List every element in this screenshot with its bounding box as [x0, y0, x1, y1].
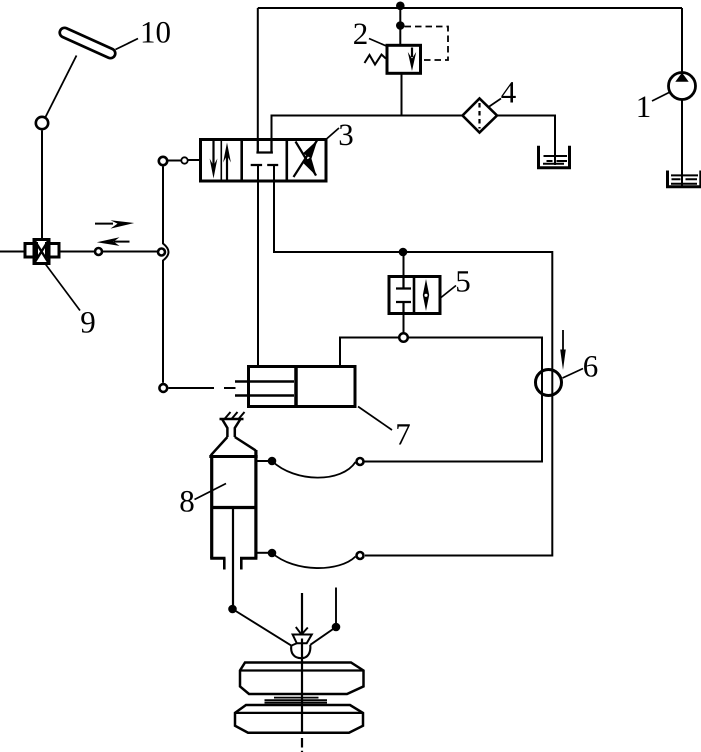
filter 4 diamond: [463, 99, 498, 133]
wire to junction: [103, 251, 157, 253]
wheel upper: [240, 663, 364, 695]
cylinder 8 rod: [232, 509, 234, 605]
label 9: [81, 312, 94, 333]
node follower pin circle: [159, 384, 167, 392]
label 5 leader: [441, 286, 456, 298]
link valve9 to pedal: [41, 131, 43, 240]
hose lower: [272, 553, 356, 568]
cylinder 7 rod stub: [224, 387, 236, 389]
wire valve3 B port to roller line: [274, 165, 552, 556]
relief valve 2 spring: [365, 55, 386, 65]
node pedal pivot circle: [36, 117, 48, 129]
cylinder 7 body: [249, 367, 356, 407]
relief valve 2 pilot dashed line: [405, 27, 449, 61]
valve 3 left cell down arrow: [212, 140, 214, 170]
pump triangle: [675, 73, 688, 82]
link pin to valve3: [188, 159, 200, 161]
valve 5 blocked ports: [396, 277, 411, 289]
label 8 leader: [195, 484, 227, 500]
valve 9 right port: [47, 244, 60, 258]
label 7: [397, 424, 410, 444]
cylinder 8 lower port stub: [256, 552, 268, 554]
link pivot to pedal: [46, 56, 77, 118]
label 1: [638, 97, 649, 117]
valve 5 body: [389, 277, 440, 314]
wire top rail: [258, 7, 682, 9]
valve 3 dividers: [242, 140, 287, 182]
node circle on line: [95, 248, 102, 255]
wire left supply line: [0, 251, 25, 253]
label 4: [501, 82, 515, 102]
valve 5 flow arrow: [423, 279, 429, 311]
centre line arrowhead: [296, 627, 308, 635]
pedal 10: [58, 26, 117, 59]
cylinder 7 rod: [235, 382, 294, 396]
wheel upper rim line: [240, 669, 364, 671]
valve 3 body: [201, 140, 327, 182]
cylinder 8 piston: [211, 506, 256, 509]
cylinder 8 shoulder: [211, 437, 256, 455]
centre line: [301, 593, 303, 635]
pump 1 circle: [669, 73, 696, 100]
label 9 leader: [45, 264, 80, 311]
relief valve 2 body: [387, 45, 421, 73]
cylinder 8 upper port stub: [256, 460, 268, 462]
junction dot upper port: [268, 457, 277, 466]
label 10 leader: [116, 39, 139, 50]
node hose lower circle: [357, 552, 364, 559]
valve 9 X: [34, 240, 49, 264]
wire relief valve supply drop: [399, 8, 401, 44]
junction dot valve 5 tap: [399, 248, 408, 257]
wire pump suction: [681, 100, 683, 186]
node junction circle with hop: [158, 249, 165, 256]
label 4 leader: [489, 99, 502, 108]
filter 4 element dashed: [478, 103, 480, 129]
wire valve3 A port to cylinder 7: [257, 165, 259, 367]
valve 3 centre bridge: [256, 140, 273, 153]
link rod to follower: [169, 387, 215, 389]
anchor hatching above cylinder 8: [220, 418, 244, 421]
tank under filter: [539, 146, 570, 168]
roller 6 arrow: [562, 330, 564, 352]
hose upper: [272, 461, 356, 478]
cylinder 7 piston: [294, 367, 298, 407]
label 10: [143, 22, 154, 42]
wire relief valve to drain header: [401, 73, 403, 115]
valve 9 left port: [25, 244, 37, 258]
node link top pin: [159, 157, 167, 165]
junction dot rod end: [228, 605, 237, 614]
node small pin at valve3: [181, 157, 187, 163]
link rod to holder left: [233, 609, 297, 646]
valve 3 centre blocked ports: [251, 164, 279, 166]
cylinder 8 walls: [212, 450, 256, 558]
label 8: [180, 491, 193, 512]
holder funnel: [293, 635, 312, 644]
valve 3 right cell crossed arrows: [294, 141, 318, 178]
label 7 leader: [358, 407, 392, 431]
roller 6 circle: [536, 370, 562, 396]
flow arrow right: [95, 223, 113, 225]
label 2: [354, 23, 366, 44]
label 5: [457, 271, 469, 292]
label 3: [340, 124, 353, 145]
wire drain header to filter: [272, 116, 463, 153]
wire cylinder7 right port to top hose rail: [340, 338, 542, 462]
wire P line into valve 3: [257, 8, 259, 153]
relief valve 2 arrow: [411, 48, 413, 58]
node valve5 outlet circle: [399, 333, 408, 342]
valve 9 body: [34, 240, 49, 264]
junction dot pilot tap: [396, 21, 405, 30]
link vertical with hop: [163, 167, 169, 383]
label 1 leader: [652, 93, 669, 102]
link to valve3 spool: [168, 160, 182, 162]
node hose upper circle: [357, 458, 364, 465]
cylinder 8 funnel neck: [222, 419, 241, 437]
wire filter to tank: [497, 116, 555, 166]
label 6 leader: [563, 369, 584, 379]
tank under pump: [668, 171, 701, 187]
link right hanger: [335, 588, 337, 624]
junction dot lower port: [268, 549, 277, 558]
wire valve5 top stub: [403, 252, 405, 277]
wire pump discharge: [681, 8, 683, 72]
wire valve9 to follower junction: [59, 251, 95, 253]
holder cup: [291, 645, 310, 658]
label 2 leader: [369, 39, 388, 47]
label 3 leader: [327, 128, 339, 139]
wire valve5 bottom stub: [403, 314, 405, 334]
wheel lower: [235, 705, 363, 733]
cylinder 8 bottom steps: [210, 557, 257, 560]
lens blank: [274, 697, 319, 699]
valve 5 divider: [413, 277, 416, 314]
cylinder 8 top cap: [209, 455, 257, 458]
valve 3 left cell thin divider: [220, 140, 222, 182]
junction dot on rail: [396, 2, 405, 11]
wheel lower rim line: [235, 712, 363, 714]
link hanger to holder right: [310, 627, 336, 645]
junction dot right hanger: [332, 623, 341, 632]
flow arrow left: [114, 241, 130, 243]
label 6: [584, 356, 597, 377]
valve 3 left cell up arrow: [226, 152, 228, 181]
